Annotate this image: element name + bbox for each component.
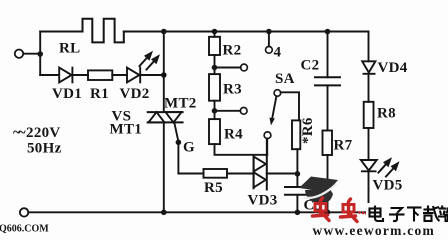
watermark white panel bbox=[366, 203, 448, 236]
svg-text:www.eeworm.com: www.eeworm.com bbox=[313, 223, 435, 236]
bottom rail wire bbox=[28, 211, 368, 213]
wire VD2 to main node bbox=[140, 74, 164, 76]
node top rail / contact 4 bbox=[266, 29, 272, 35]
wire R6 to node bbox=[296, 149, 298, 173]
resistor R2 bbox=[209, 37, 220, 55]
wire R2 top bbox=[214, 32, 216, 37]
resistor R7 bbox=[323, 131, 333, 156]
diode VD1 bbox=[59, 68, 72, 83]
resistor R1 bbox=[88, 70, 112, 80]
node top rail / C2 bbox=[325, 29, 331, 35]
载 bbox=[424, 208, 434, 210]
resistor R3 bbox=[209, 74, 220, 101]
wire VD3 right to node bbox=[267, 173, 298, 175]
wire bottom branch to VD1 bbox=[40, 74, 59, 76]
svg-text:G: G bbox=[183, 140, 195, 156]
wire tap2 to contact bbox=[215, 67, 241, 69]
terminal B (bottom left) bbox=[20, 208, 28, 216]
wire C2 to R7 bbox=[327, 85, 329, 130]
wire C3 to rail bbox=[296, 195, 298, 213]
svg-text:R4: R4 bbox=[224, 127, 243, 143]
svg-text:SA: SA bbox=[275, 71, 295, 87]
wire tap3 to contact bbox=[215, 110, 241, 112]
svg-text:50Hz: 50Hz bbox=[27, 141, 62, 157]
wire R2-R3 bbox=[214, 55, 216, 74]
wire node to C3 bbox=[296, 174, 298, 187]
电 bbox=[370, 209, 381, 217]
svg-text:VD4: VD4 bbox=[378, 60, 408, 76]
wire VD4 to R8 bbox=[368, 74, 370, 102]
wire input vertical bbox=[39, 32, 41, 76]
svg-text:R7: R7 bbox=[334, 138, 353, 154]
svg-text:4: 4 bbox=[274, 45, 282, 61]
node R3/R4 tap bbox=[212, 108, 218, 114]
svg-text:R5: R5 bbox=[204, 180, 223, 196]
下 bbox=[407, 206, 422, 208]
wire R3-R4 bbox=[214, 101, 216, 119]
wire R1 to VD2 bbox=[112, 74, 127, 76]
wire RL to top rail bbox=[124, 31, 369, 33]
svg-text:MT2: MT2 bbox=[164, 96, 197, 112]
svg-text:VD2: VD2 bbox=[120, 86, 150, 102]
terminal A (top left input) bbox=[15, 50, 23, 58]
wire contact1 drop bbox=[266, 139, 268, 155]
contact circle 2 bbox=[240, 107, 247, 114]
switch SA contact 4 bbox=[266, 46, 273, 53]
wire top branch to RL bbox=[40, 31, 82, 33]
node R2/R3 tap bbox=[212, 65, 218, 71]
wire VD5 to rail bbox=[368, 171, 370, 212]
svg-text:MT1: MT1 bbox=[110, 122, 143, 138]
watermark graduation cap logo bbox=[299, 177, 338, 204]
LED VD5 bbox=[361, 160, 377, 171]
svg-text:R1: R1 bbox=[90, 86, 109, 102]
wire R8 to VD5 bbox=[368, 128, 370, 160]
svg-text:VD5: VD5 bbox=[373, 178, 403, 194]
node top rail / triac column bbox=[161, 29, 167, 35]
contact circle 1 bbox=[264, 132, 271, 139]
svg-text:VD1: VD1 bbox=[52, 86, 82, 102]
svg-text:R2: R2 bbox=[223, 43, 242, 59]
switch SA arm bbox=[272, 96, 277, 120]
resistor R5 bbox=[204, 169, 228, 178]
watermark red bug characters bbox=[313, 198, 368, 222]
node input junction bbox=[37, 51, 43, 57]
子 bbox=[391, 208, 403, 213]
svg-text:Q606.COM: Q606.COM bbox=[0, 224, 49, 235]
node VD2/triac junction bbox=[161, 72, 167, 78]
node C3 rail bbox=[295, 210, 301, 216]
svg-text:RL: RL bbox=[59, 41, 80, 57]
wire terminal to junction bbox=[23, 53, 40, 55]
svg-text:R8: R8 bbox=[377, 106, 396, 122]
wire triac column upper bbox=[163, 32, 165, 113]
node VD3/R6/C3 bbox=[295, 171, 301, 177]
wire contact 4 bbox=[268, 32, 270, 47]
wire gate diagonal bbox=[175, 124, 179, 142]
contact circle 3 bbox=[241, 64, 248, 71]
resistor R8 bbox=[364, 102, 374, 128]
svg-text:VD3: VD3 bbox=[248, 193, 278, 209]
svg-text:*R6: *R6 bbox=[300, 117, 316, 144]
wire triac column lower bbox=[163, 122, 165, 212]
triac VS bbox=[148, 112, 183, 122]
switch SA pivot bbox=[274, 90, 281, 97]
svg-text:~~220V: ~~220V bbox=[13, 125, 61, 141]
trigger diode VD3 bbox=[254, 155, 267, 190]
wire pivot to R6 bbox=[281, 92, 299, 120]
resistor R6 bbox=[292, 120, 300, 149]
LED VD5 emission arrows bbox=[379, 157, 400, 176]
node R7 rail bbox=[325, 210, 331, 216]
wire R5 to VD3 bbox=[227, 173, 254, 175]
capacitor C2 bbox=[315, 77, 340, 85]
wire gate down bbox=[177, 142, 179, 173]
wire gate to R5 bbox=[178, 173, 203, 175]
LED VD2 bbox=[127, 68, 140, 83]
wire C2 top bbox=[327, 32, 329, 78]
wire VD1 to R1 bbox=[72, 74, 88, 76]
node bottom rail / triac bbox=[161, 210, 167, 216]
wire right column top bbox=[368, 32, 370, 62]
wire R4 bottom to contact 1 bbox=[215, 144, 268, 155]
diode VD4 bbox=[362, 61, 375, 74]
LED VD2 emission arrows bbox=[140, 51, 161, 70]
resistor RL heater meander bbox=[83, 19, 124, 43]
wire VD3 top to contact bbox=[266, 139, 268, 156]
站 bbox=[439, 207, 447, 209]
node G bbox=[176, 140, 182, 146]
capacitor C3 bbox=[285, 187, 309, 195]
svg-text:C2: C2 bbox=[301, 58, 320, 74]
watermark text 电子下载站 bbox=[370, 206, 448, 222]
resistor R4 bbox=[209, 119, 220, 144]
svg-text:R3: R3 bbox=[223, 82, 242, 98]
wire R7 to rail bbox=[327, 155, 329, 212]
node top rail / R2 bbox=[212, 29, 218, 35]
